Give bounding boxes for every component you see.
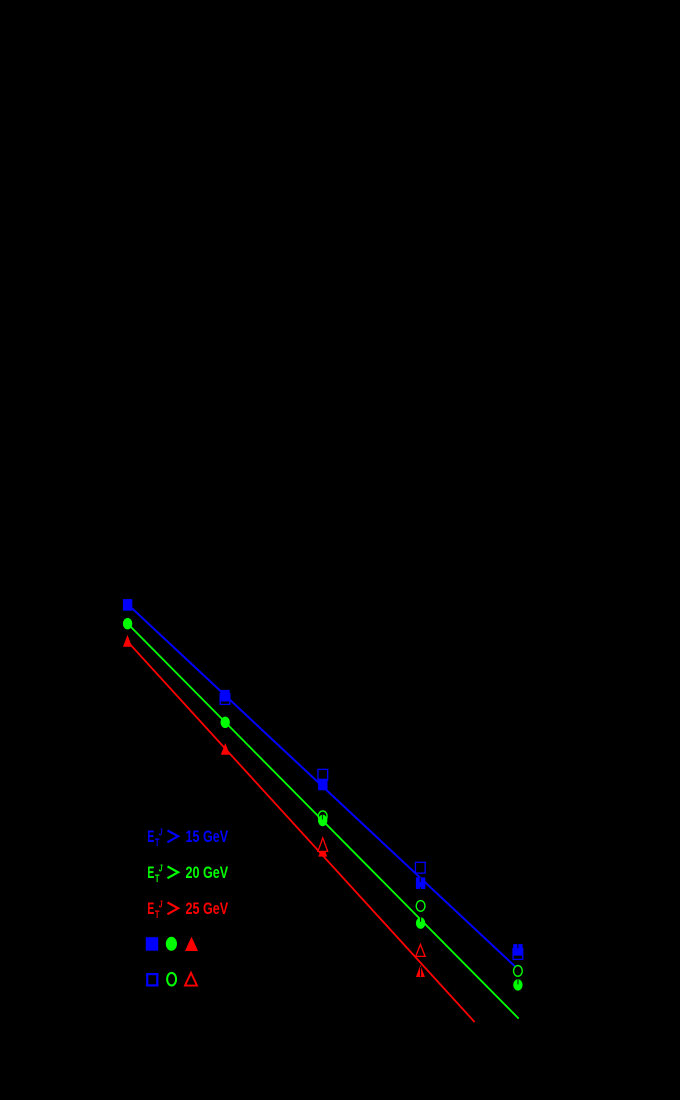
fitted line green (ET>20 GeV) [128, 624, 519, 1019]
legend text line 1: ET J > 15 GeV (blue) [147, 826, 228, 849]
svg-text:E: E [147, 900, 154, 918]
legend filled green circle [166, 937, 177, 951]
data point blue square c4 (open above + filled) [415, 862, 425, 889]
data point green circle c2 [221, 717, 230, 728]
svg-text:T: T [155, 837, 160, 849]
fitted line blue (ET>15 GeV) [128, 604, 517, 967]
data point blue square c2 (open behind + filled) [220, 690, 230, 704]
svg-text:T: T [155, 873, 160, 885]
legend filled red triangle [185, 937, 198, 951]
legend open green circle [167, 973, 176, 986]
svg-text:15 GeV: 15 GeV [186, 828, 229, 846]
data point red triangle c1 [123, 635, 132, 647]
svg-text:E: E [147, 864, 154, 882]
fitted line red (ET>25 GeV) [128, 642, 475, 1023]
data point green circle c5 (open above + filled) [513, 966, 522, 991]
data point red triangle c2 [221, 743, 230, 755]
svg-text:E: E [147, 828, 154, 846]
legend open red triangle [185, 973, 197, 986]
legend filled blue square [146, 937, 158, 951]
data point red triangle c4 (open above + filled) [416, 944, 425, 977]
legend text line 2: ET J > 20 GeV (green) [147, 862, 228, 885]
data point blue square c5 (open behind + filled) [513, 944, 523, 959]
svg-text:25 GeV: 25 GeV [186, 900, 229, 918]
data point green circle c4 (open above + filled) [416, 901, 425, 929]
data point blue square c3 (open above + filled) [318, 769, 328, 790]
svg-text:20 GeV: 20 GeV [186, 864, 229, 882]
legend text line 3: ET J > 25 GeV (red) [147, 898, 228, 921]
data point blue square c1 [123, 599, 132, 611]
svg-text:T: T [155, 909, 160, 921]
data point red triangle c3 (filled + open on top) [318, 838, 328, 857]
data point green circle c3 (open above + filled) [318, 811, 327, 826]
legend open blue square [147, 974, 157, 985]
data point green circle c1 [123, 618, 132, 629]
